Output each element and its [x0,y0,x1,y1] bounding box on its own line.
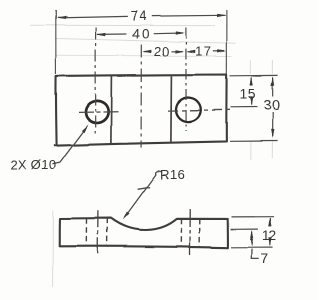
arrowhead 30 up [271,76,274,85]
extension line front top [232,216,274,218]
top view outline [54,75,227,147]
arrowhead 7 down [250,238,253,246]
hole 1 horizontal centerline [79,111,121,114]
extension line right top [230,74,278,76]
construction line vertical left of front view [52,210,54,287]
svg-text:20: 20 [154,44,170,59]
arrowhead 12 up [268,217,271,226]
arrowhead 15 down [250,96,253,105]
hidden line hole 1 right [106,218,108,246]
dimension line 12 [269,218,271,245]
hidden line hole 2 left [180,219,182,247]
svg-text:17: 17 [195,44,212,59]
dimension line 17 [188,50,225,53]
extension line right middle [231,106,258,108]
arrowhead 7 up [250,230,253,238]
dimension line 74 [58,15,226,18]
construction line horizontal under 20 17 [55,54,232,57]
dimension line 15 [251,78,253,105]
part vertical centerline [140,45,142,148]
arrowhead 15 up [250,76,253,85]
hidden line hole 2 right [198,219,200,247]
arrowhead 40 left [96,33,106,36]
hidden line hole 1 left [85,218,87,246]
leader R16 tick [138,187,150,189]
svg-text:2X Ø10: 2X Ø10 [11,157,56,172]
arrowhead 20 right [175,50,184,53]
extension line right edge [226,10,228,74]
svg-text:74: 74 [130,9,147,24]
svg-text:15: 15 [240,85,257,101]
centerline hole 1 front [97,211,99,254]
arrowhead 30 down [271,129,274,138]
top view internal line left [110,75,113,143]
dimension line 40 [97,33,183,34]
construction line horizontal upper [30,24,215,26]
arrowhead 12 down [268,237,271,246]
top view internal line right [170,76,173,142]
hole 1 vertical centerline [95,28,97,134]
leader 2X diameter 10 [52,128,87,165]
extension line left edge [55,10,57,74]
arrowhead 40 right [175,31,185,34]
construction line vertical below 30 dim [271,142,273,158]
arrowhead 17 right [217,49,226,52]
leader R16 [125,171,162,217]
hole 2 horizontal centerline [168,109,232,112]
svg-text:R16: R16 [160,167,185,182]
construction line vertical below 15 dim [250,142,252,160]
dimension line 7 [251,232,253,245]
hole 2 circle [174,96,202,123]
extension line arc bottom [231,228,259,230]
arrowhead 20 left [142,50,151,53]
dimension line 20 [144,50,183,53]
extension line front bottom [231,246,273,248]
arrowhead 17 left [186,50,195,53]
svg-text:7: 7 [260,250,268,266]
arrowhead leader hole [82,124,89,132]
svg-text:30: 30 [263,98,280,114]
svg-text:12: 12 [262,228,276,243]
centerline hole 2 front [189,209,191,255]
extension line right bottom [230,140,278,142]
arrowhead R16 [123,212,130,220]
construction line vertical above 30 dim [271,60,273,74]
hole 1 circle [83,99,110,125]
arrowhead 74 right [217,14,227,17]
front view outline [60,218,228,248]
hole 2 vertical centerline [185,28,187,132]
dimension line 30 [272,78,274,137]
construction line horizontal lower [55,39,236,44]
leader 7 [251,249,258,259]
arrowhead 74 left [56,16,66,19]
svg-text:40: 40 [132,26,151,41]
construction line vertical above 15 dim [250,60,252,74]
